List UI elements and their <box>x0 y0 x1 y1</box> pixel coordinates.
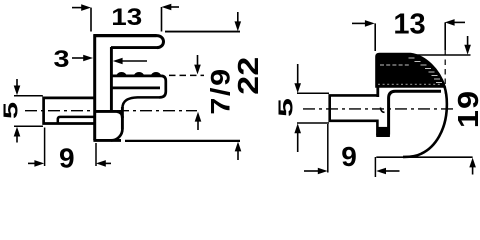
dimension 13 (left view): left extension line <box>90 8 92 32</box>
dimension 9 (right view): left arrow pointing right <box>304 170 319 172</box>
right part: head left face upper segment <box>376 85 379 97</box>
dimension 9 (right view): right arrow pointing left <box>384 170 400 172</box>
svg-text:13: 13 <box>111 3 142 31</box>
right part: pin outline <box>330 95 377 120</box>
dimension 9 (left view): right extension line <box>95 143 97 166</box>
dimension 19: top arrow pointing down <box>467 36 469 47</box>
left part: inner wall edge <box>110 47 113 111</box>
left part: outer wall (left vertical edge) <box>93 34 96 140</box>
dimension 3: arrow pointing right at outer wall <box>72 57 85 59</box>
dimension 9 (left view): left arrow pointing right <box>28 162 37 164</box>
svg-text:13: 13 <box>393 9 425 41</box>
svg-text:5: 5 <box>275 98 297 117</box>
dimension 9 (left view): right arrow pointing left <box>103 162 111 164</box>
svg-text:7/9: 7/9 <box>206 67 236 114</box>
centerline of right pin (dash-dot) <box>303 108 454 110</box>
dimension 7/9: upper arrow pointing down <box>197 55 199 67</box>
dimension 5 (right view): top extension line <box>297 92 329 94</box>
dimension 5 (right view): top arrow pointing down <box>297 64 299 85</box>
dimension 3: arrow pointing left at inner wall <box>120 60 147 62</box>
left part: cavity bottom edge with corner to arm face <box>96 111 123 118</box>
svg-text:22: 22 <box>231 57 264 95</box>
right part: head outer arc below cap <box>403 86 447 157</box>
dimension 9 (right view): right extension line <box>374 157 376 177</box>
svg-text:3: 3 <box>53 45 69 72</box>
right part: small hook detail in channel <box>381 108 385 113</box>
left part: support arm rounded right end <box>160 76 166 98</box>
left part: support arm top edge <box>111 75 162 78</box>
left part: flange top edge <box>94 34 157 37</box>
dimension 19: bottom arrow pointing up <box>472 166 474 175</box>
dimension 22: bottom leader line <box>125 140 240 142</box>
dimension 7/9: upper dashed reference line <box>169 74 204 76</box>
dimension 13 (left view): right extension line <box>161 7 163 32</box>
dimension 22: top leader line <box>165 31 240 33</box>
left part: rib bumps on arm top <box>117 72 162 76</box>
dimension 13 (right view): right extension line, dashed across head <box>444 22 446 50</box>
dimension 13 (right view): left arrow pointing right <box>352 22 367 24</box>
dimension 9 (right view): left extension line <box>327 124 329 173</box>
dimension 19: bottom leader line <box>376 156 472 158</box>
centerline of pin (dash-dot) <box>25 110 197 112</box>
left part: flange underside <box>111 46 158 49</box>
left part: flange rounded right end <box>157 36 164 48</box>
dimension 5 (left view): bottom arrow pointing up <box>16 134 18 143</box>
dimension 9 (left view): left extension line below pin <box>44 128 46 167</box>
svg-text:9: 9 <box>59 143 75 174</box>
right part: foot solid blob <box>377 127 390 136</box>
dimension 22: top arrow pointing down <box>237 12 239 24</box>
svg-text:9: 9 <box>341 141 357 172</box>
dimension 7/9: lower arrow pointing up <box>197 120 199 131</box>
dimension 5 (right view): bottom extension line <box>297 122 329 124</box>
right part: head left face lower segment <box>376 120 379 136</box>
svg-text:5: 5 <box>0 102 22 119</box>
dimension 5 (left view): top extension line <box>14 95 43 97</box>
dimension 22: bottom arrow pointing up <box>237 149 239 160</box>
svg-text:19: 19 <box>452 90 480 128</box>
dimension 19: top leader line <box>412 54 471 56</box>
right part: foot right edge up to inner line <box>389 91 441 134</box>
left part: support arm insert line <box>112 87 160 90</box>
dimension 13 (right view): right arrow pointing left <box>452 21 465 23</box>
left part: pin inner step line <box>58 117 96 123</box>
right part: foot bottom thick band <box>376 134 390 137</box>
dimension 5 (left view): bottom extension line <box>14 125 43 127</box>
dimension 13 (left view): right arrow <box>166 6 179 8</box>
right part: white contour hatch lines inside cap <box>378 58 442 84</box>
left part: pin outline (top, left end, bottom) <box>44 98 96 124</box>
dimension 13 (right view): left extension line <box>374 23 376 51</box>
left part: bottom fillet <box>111 129 122 140</box>
left part: arm vertical face <box>121 107 124 129</box>
left part: arm underside with S-curve down to face <box>122 97 160 108</box>
left part: bottom edge <box>93 139 121 142</box>
dimension 5 (right view): bottom arrow pointing up <box>297 132 299 153</box>
dimension 13 (left view): dimension line left arrow <box>72 7 87 9</box>
dimension 5 (left view): top arrow pointing down <box>16 79 18 88</box>
